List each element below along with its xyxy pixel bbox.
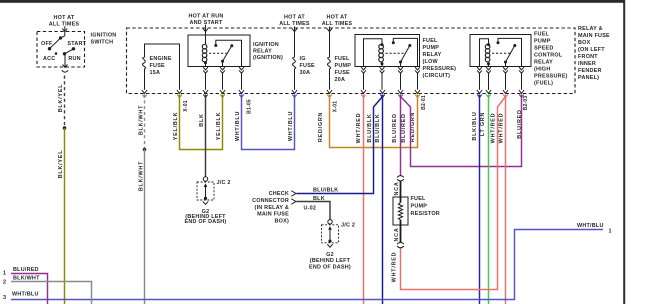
label G2 (BEHIND LEFT END OF DASH) (left) <box>185 209 227 225</box>
svg-text:IGNITION: IGNITION <box>253 42 279 48</box>
label HOT AT ALL TIMES (fuel pump fuse) <box>322 15 353 28</box>
svg-text:BLK/WHT: BLK/WHT <box>138 105 144 135</box>
svg-text:(ON LEFT: (ON LEFT <box>578 47 605 53</box>
fuel pump relay pin connectors <box>361 67 420 90</box>
label RELAY & MAIN FUSE BOX <box>578 26 610 81</box>
wire BLU/BLK branch to check connector <box>297 97 383 194</box>
label FUEL PUMP RESISTOR <box>411 196 440 217</box>
svg-text:WHT/RED: WHT/RED <box>356 113 362 144</box>
svg-text:(LOW: (LOW <box>423 59 439 65</box>
svg-text:ALL TIMES: ALL TIMES <box>49 22 80 28</box>
svg-text:(CIRCUIT): (CIRCUIT) <box>423 73 451 79</box>
svg-text:RELAY &: RELAY & <box>578 26 603 32</box>
svg-text:PUMP: PUMP <box>423 45 440 51</box>
wire BLK/WHT dashed segment <box>144 95 146 150</box>
svg-text:X-01: X-01 <box>183 100 189 111</box>
svg-text:RELAY: RELAY <box>253 49 272 55</box>
svg-text:FUSE: FUSE <box>300 63 316 69</box>
svg-text:OFF: OFF <box>41 41 53 47</box>
svg-text:BLU/BLK: BLU/BLK <box>375 113 381 142</box>
resistor lead top <box>400 181 402 203</box>
svg-text:FUSE: FUSE <box>150 63 166 69</box>
svg-text:IGNITION: IGNITION <box>91 33 117 39</box>
label IGNITION SWITCH <box>91 33 117 46</box>
svg-text:PUMP: PUMP <box>411 204 428 210</box>
resistor element <box>398 203 402 220</box>
svg-text:PRESSURE): PRESSURE) <box>423 66 457 72</box>
label G2 (BEHIND LEFT END OF DASH) (right) <box>309 252 351 271</box>
svg-text:J/C 2: J/C 2 <box>217 180 231 186</box>
junction connector J/C 2 (G2 left) <box>197 177 214 205</box>
wire WHT/RED to fuel pump <box>361 95 365 304</box>
wire WHT/BLU long run to pin 1 <box>11 230 603 300</box>
svg-text:BLK: BLK <box>313 196 325 202</box>
svg-text:SPEED: SPEED <box>534 46 554 52</box>
wire BLU/RED (bottom left) <box>11 274 48 304</box>
svg-text:BLK/YEL: BLK/YEL <box>58 84 64 113</box>
wire BLK to junction connector <box>203 95 207 177</box>
svg-text:BLU/BLK: BLU/BLK <box>367 113 373 142</box>
svg-text:1: 1 <box>609 229 612 235</box>
svg-text:RESISTOR: RESISTOR <box>411 211 440 217</box>
fuse IG FUSE 30A <box>292 27 315 90</box>
connector at ignition switch output <box>62 65 68 73</box>
svg-text:HOT AT RUN: HOT AT RUN <box>188 14 223 20</box>
svg-text:FRONT: FRONT <box>578 54 598 60</box>
svg-text:3: 3 <box>3 295 6 301</box>
relay and main fuse box (dashed) <box>127 28 576 94</box>
svg-text:(IN RELAY &: (IN RELAY & <box>255 205 289 211</box>
svg-text:30A: 30A <box>300 70 311 76</box>
svg-text:BLU/RED: BLU/RED <box>392 113 398 142</box>
svg-text:B2-01: B2-01 <box>421 95 427 110</box>
svg-text:(BEHIND LEFT: (BEHIND LEFT <box>310 258 351 264</box>
svg-text:ACC: ACC <box>43 56 55 62</box>
svg-text:RELAY: RELAY <box>534 60 553 66</box>
exit pin connectors at fuse box bottom edge <box>142 90 524 93</box>
label FUEL PUMP SPEED CONTROL RELAY (HIGH PRESSURE) (FUEL) <box>534 32 568 87</box>
wire RED/GRN jumper <box>327 95 419 148</box>
svg-text:U-02: U-02 <box>304 206 317 212</box>
svg-text:BLU/BLK: BLU/BLK <box>313 188 338 194</box>
svg-text:HOT AT: HOT AT <box>284 15 305 21</box>
svg-text:WHT/BLU: WHT/BLU <box>577 223 604 229</box>
svg-text:FUEL: FUEL <box>534 32 550 38</box>
svg-text:CONTROL: CONTROL <box>534 53 563 59</box>
svg-text:SWITCH: SWITCH <box>91 40 114 46</box>
fuel pump speed control relay box <box>470 35 531 67</box>
svg-text:FENDER: FENDER <box>578 68 602 74</box>
wire BLU/BLK trunk <box>380 95 384 304</box>
svg-text:PRESSURE): PRESSURE) <box>534 74 568 80</box>
svg-text:IG: IG <box>300 56 306 62</box>
svg-text:WHT/RED: WHT/RED <box>499 113 505 144</box>
right page border <box>623 0 625 304</box>
svg-text:ENGINE: ENGINE <box>150 56 172 62</box>
wire LT GRN <box>486 95 490 304</box>
svg-text:LT GRN: LT GRN <box>480 112 486 136</box>
wire BLK/WHT (bottom left) <box>11 282 92 304</box>
node splice on BLK/WHT <box>143 148 147 152</box>
svg-text:BLK/BLU: BLK/BLU <box>472 111 478 140</box>
svg-text:BOX): BOX) <box>275 219 289 225</box>
svg-text:INNER: INNER <box>578 61 596 67</box>
svg-text:J/C 2: J/C 2 <box>341 223 355 229</box>
wire BLK/YEL dashed segment <box>64 76 66 129</box>
svg-text:MAIN FUSE: MAIN FUSE <box>257 212 289 218</box>
svg-text:HOT AT: HOT AT <box>54 15 75 21</box>
svg-text:RED/GRN: RED/GRN <box>318 112 324 142</box>
label HOT AT ALL TIMES (ignition switch) <box>49 15 80 28</box>
wire WHT/RED trunk from speed relay <box>503 95 507 304</box>
wire BLU/RED jumper to B2-03 pin <box>401 95 524 167</box>
wire YEL/BLK jumper <box>177 95 224 150</box>
fuel pump relay box <box>355 35 420 67</box>
svg-text:END OF DASH): END OF DASH) <box>309 265 351 271</box>
wire BLK/BLU <box>477 95 481 304</box>
svg-text:RUN: RUN <box>68 56 80 62</box>
svg-text:20A: 20A <box>335 77 346 83</box>
svg-text:WHT/RED: WHT/RED <box>391 252 397 283</box>
svg-text:2: 2 <box>3 279 6 285</box>
svg-text:FUEL: FUEL <box>411 196 427 202</box>
wire feed to ignition relay coil <box>203 25 208 44</box>
wire BLK from check connector to ground <box>297 202 331 220</box>
svg-text:(IGNITION): (IGNITION) <box>253 55 283 61</box>
top border bar <box>0 0 625 3</box>
svg-text:B2-03: B2-03 <box>523 96 529 111</box>
svg-text:BLK/WHT: BLK/WHT <box>13 276 40 282</box>
svg-text:CONNECTOR: CONNECTOR <box>252 198 289 204</box>
fuel pump relay coil and contacts <box>364 38 418 66</box>
svg-text:BLK/WHT: BLK/WHT <box>138 161 144 191</box>
wire BLK/WHT to bottom <box>144 150 146 304</box>
svg-text:BLU/RED: BLU/RED <box>401 113 407 142</box>
resistor lead bottom <box>400 220 402 243</box>
wire BLU/RED to resistor <box>398 95 402 177</box>
svg-text:X-01: X-01 <box>332 101 338 112</box>
svg-text:WHT/RED: WHT/RED <box>491 113 497 144</box>
svg-text:END OF DASH): END OF DASH) <box>185 219 227 225</box>
ignition switch box <box>37 32 85 68</box>
wire BLK/YEL to bottom <box>64 128 66 304</box>
svg-text:YEL/BLK: YEL/BLK <box>173 112 179 141</box>
svg-text:PANEL): PANEL) <box>578 75 599 81</box>
fuse FUEL PUMP FUSE 20A <box>327 27 351 90</box>
svg-text:AND START: AND START <box>190 20 223 26</box>
svg-text:WHT/BLU: WHT/BLU <box>235 111 241 141</box>
label IGNITION RELAY (IGNITION) <box>253 42 283 61</box>
ignition switch S1 contacts <box>41 26 87 67</box>
node splice on BLK/YEL <box>63 126 67 130</box>
svg-text:MAIN FUSE: MAIN FUSE <box>578 33 610 39</box>
junction connector J/C 2 (G2 right) <box>322 220 339 248</box>
svg-text:PUMP: PUMP <box>534 39 551 45</box>
label HOT AT RUN AND START <box>188 14 223 26</box>
svg-text:NCA: NCA <box>394 181 400 195</box>
connector NCA (resistor bottom) <box>397 242 404 247</box>
label FUEL PUMP RELAY (LOW PRESSURE) (CIRCUIT) <box>423 38 457 79</box>
label CHECK CONNECTOR (IN RELAY & MAIN FUSE BOX) <box>252 191 289 225</box>
check connector pin chevrons <box>291 191 296 204</box>
fuel pump resistor box <box>393 197 408 225</box>
wire WHT/RED branch to resistor return <box>401 97 506 290</box>
svg-text:NCA: NCA <box>394 227 400 241</box>
svg-text:BOX: BOX <box>578 40 591 46</box>
svg-text:ALL TIMES: ALL TIMES <box>322 21 353 27</box>
svg-text:FUSE: FUSE <box>335 70 351 76</box>
ignition relay pin connectors <box>203 67 244 90</box>
connector NCA (resistor top) <box>397 176 404 181</box>
wire WHT/BLU jumper <box>239 95 296 150</box>
fuel pump speed control relay coil and contacts <box>480 38 522 66</box>
ignition relay box <box>188 35 250 67</box>
svg-text:FUEL: FUEL <box>335 56 351 62</box>
label HOT AT ALL TIMES (IG fuse) <box>279 15 310 28</box>
svg-text:BLU/RED: BLU/RED <box>13 267 39 273</box>
svg-text:B1-05: B1-05 <box>246 99 252 114</box>
svg-text:BLK: BLK <box>199 113 205 126</box>
svg-text:WHT/BLU: WHT/BLU <box>288 111 294 141</box>
svg-text:START: START <box>67 41 86 47</box>
svg-text:ALL TIMES: ALL TIMES <box>279 21 310 27</box>
svg-text:CHECK: CHECK <box>269 191 289 197</box>
svg-text:1: 1 <box>3 271 6 277</box>
svg-text:HOT AT: HOT AT <box>327 15 348 21</box>
ignition relay coil and contacts <box>202 40 241 66</box>
svg-text:(FUEL): (FUEL) <box>534 81 553 87</box>
svg-text:WHT/BLU: WHT/BLU <box>12 292 39 298</box>
svg-text:RELAY: RELAY <box>423 52 442 58</box>
svg-text:FUEL: FUEL <box>423 38 439 44</box>
fuel pump speed control relay pin connectors <box>477 67 524 90</box>
svg-text:PUMP: PUMP <box>335 63 352 69</box>
fuse ENGINE FUSE 15A <box>142 44 179 90</box>
svg-text:BLU/RED: BLU/RED <box>517 109 523 138</box>
svg-text:YEL/BLK: YEL/BLK <box>216 112 222 141</box>
svg-text:(HIGH: (HIGH <box>534 67 551 73</box>
svg-text:15A: 15A <box>150 70 161 76</box>
svg-text:BLK/YEL: BLK/YEL <box>58 150 64 179</box>
